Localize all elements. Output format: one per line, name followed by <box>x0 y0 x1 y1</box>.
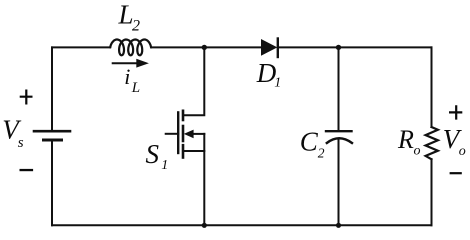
wire capacitor bottom vertical <box>338 139 340 226</box>
transistor S1 source stub middle <box>193 133 204 135</box>
inductor L2 coil <box>110 40 151 56</box>
svg-text:2: 2 <box>318 145 325 160</box>
wire right vertical upper <box>431 47 433 127</box>
wire top rail left: source to inductor <box>52 46 110 48</box>
transistor S1 body arrow <box>184 130 194 139</box>
wire MOSFET source vertical <box>203 134 205 225</box>
label S1 <box>146 139 169 173</box>
wire MOSFET drain vertical <box>183 47 204 115</box>
transistor S1 gate bar <box>177 112 179 153</box>
battery source Vs long plate <box>34 130 70 133</box>
wire right vertical lower <box>431 159 433 225</box>
diode D1 cathode bar <box>277 39 279 58</box>
wire capacitor top vertical <box>338 47 340 130</box>
svg-text:R: R <box>397 125 414 154</box>
svg-text:C: C <box>300 126 319 156</box>
svg-text:o: o <box>459 144 466 159</box>
svg-text:1: 1 <box>161 158 168 173</box>
label D1 <box>256 58 282 91</box>
battery source Vs short plate <box>44 139 62 142</box>
label iL <box>124 64 140 96</box>
label Vo <box>443 124 466 159</box>
label minus (Vo) <box>450 172 462 174</box>
label Ro <box>397 125 421 159</box>
resistor Ro zigzag <box>426 127 438 159</box>
node dot at drain/top <box>202 45 207 50</box>
transistor S1 channel bar <box>182 111 185 158</box>
transistor S1 source stub bottom <box>183 150 204 152</box>
wire left vertical upper (source +) <box>51 47 53 130</box>
label plus (Vo) <box>449 105 462 119</box>
svg-text:S: S <box>146 139 160 169</box>
label C2 <box>300 126 325 160</box>
label L2 <box>118 0 141 35</box>
capacitor C2 top plate <box>326 130 352 132</box>
wire bottom rail <box>52 224 432 226</box>
label plus (Vs) <box>20 90 33 105</box>
wire top rail: inductor to diode <box>151 46 261 48</box>
node dot at capacitor top <box>336 45 341 50</box>
svg-text:o: o <box>414 144 421 159</box>
diode D1 <box>261 39 277 56</box>
label Vs <box>2 115 24 151</box>
svg-text:s: s <box>18 135 24 151</box>
wire top rail: diode to right corner <box>279 46 432 48</box>
svg-text:1: 1 <box>274 76 281 91</box>
wire left vertical lower <box>51 141 53 225</box>
svg-text:2: 2 <box>132 18 140 35</box>
node dot bottom left (MOSFET source) <box>202 223 207 228</box>
current arrow iL <box>112 59 149 68</box>
transistor S1 gate lead <box>166 133 179 135</box>
node dot bottom right (capacitor) <box>336 223 341 228</box>
label minus (Vs) <box>20 169 34 171</box>
svg-text:i: i <box>124 64 130 89</box>
capacitor C2 curved plate <box>327 138 352 143</box>
svg-text:L: L <box>131 80 140 96</box>
